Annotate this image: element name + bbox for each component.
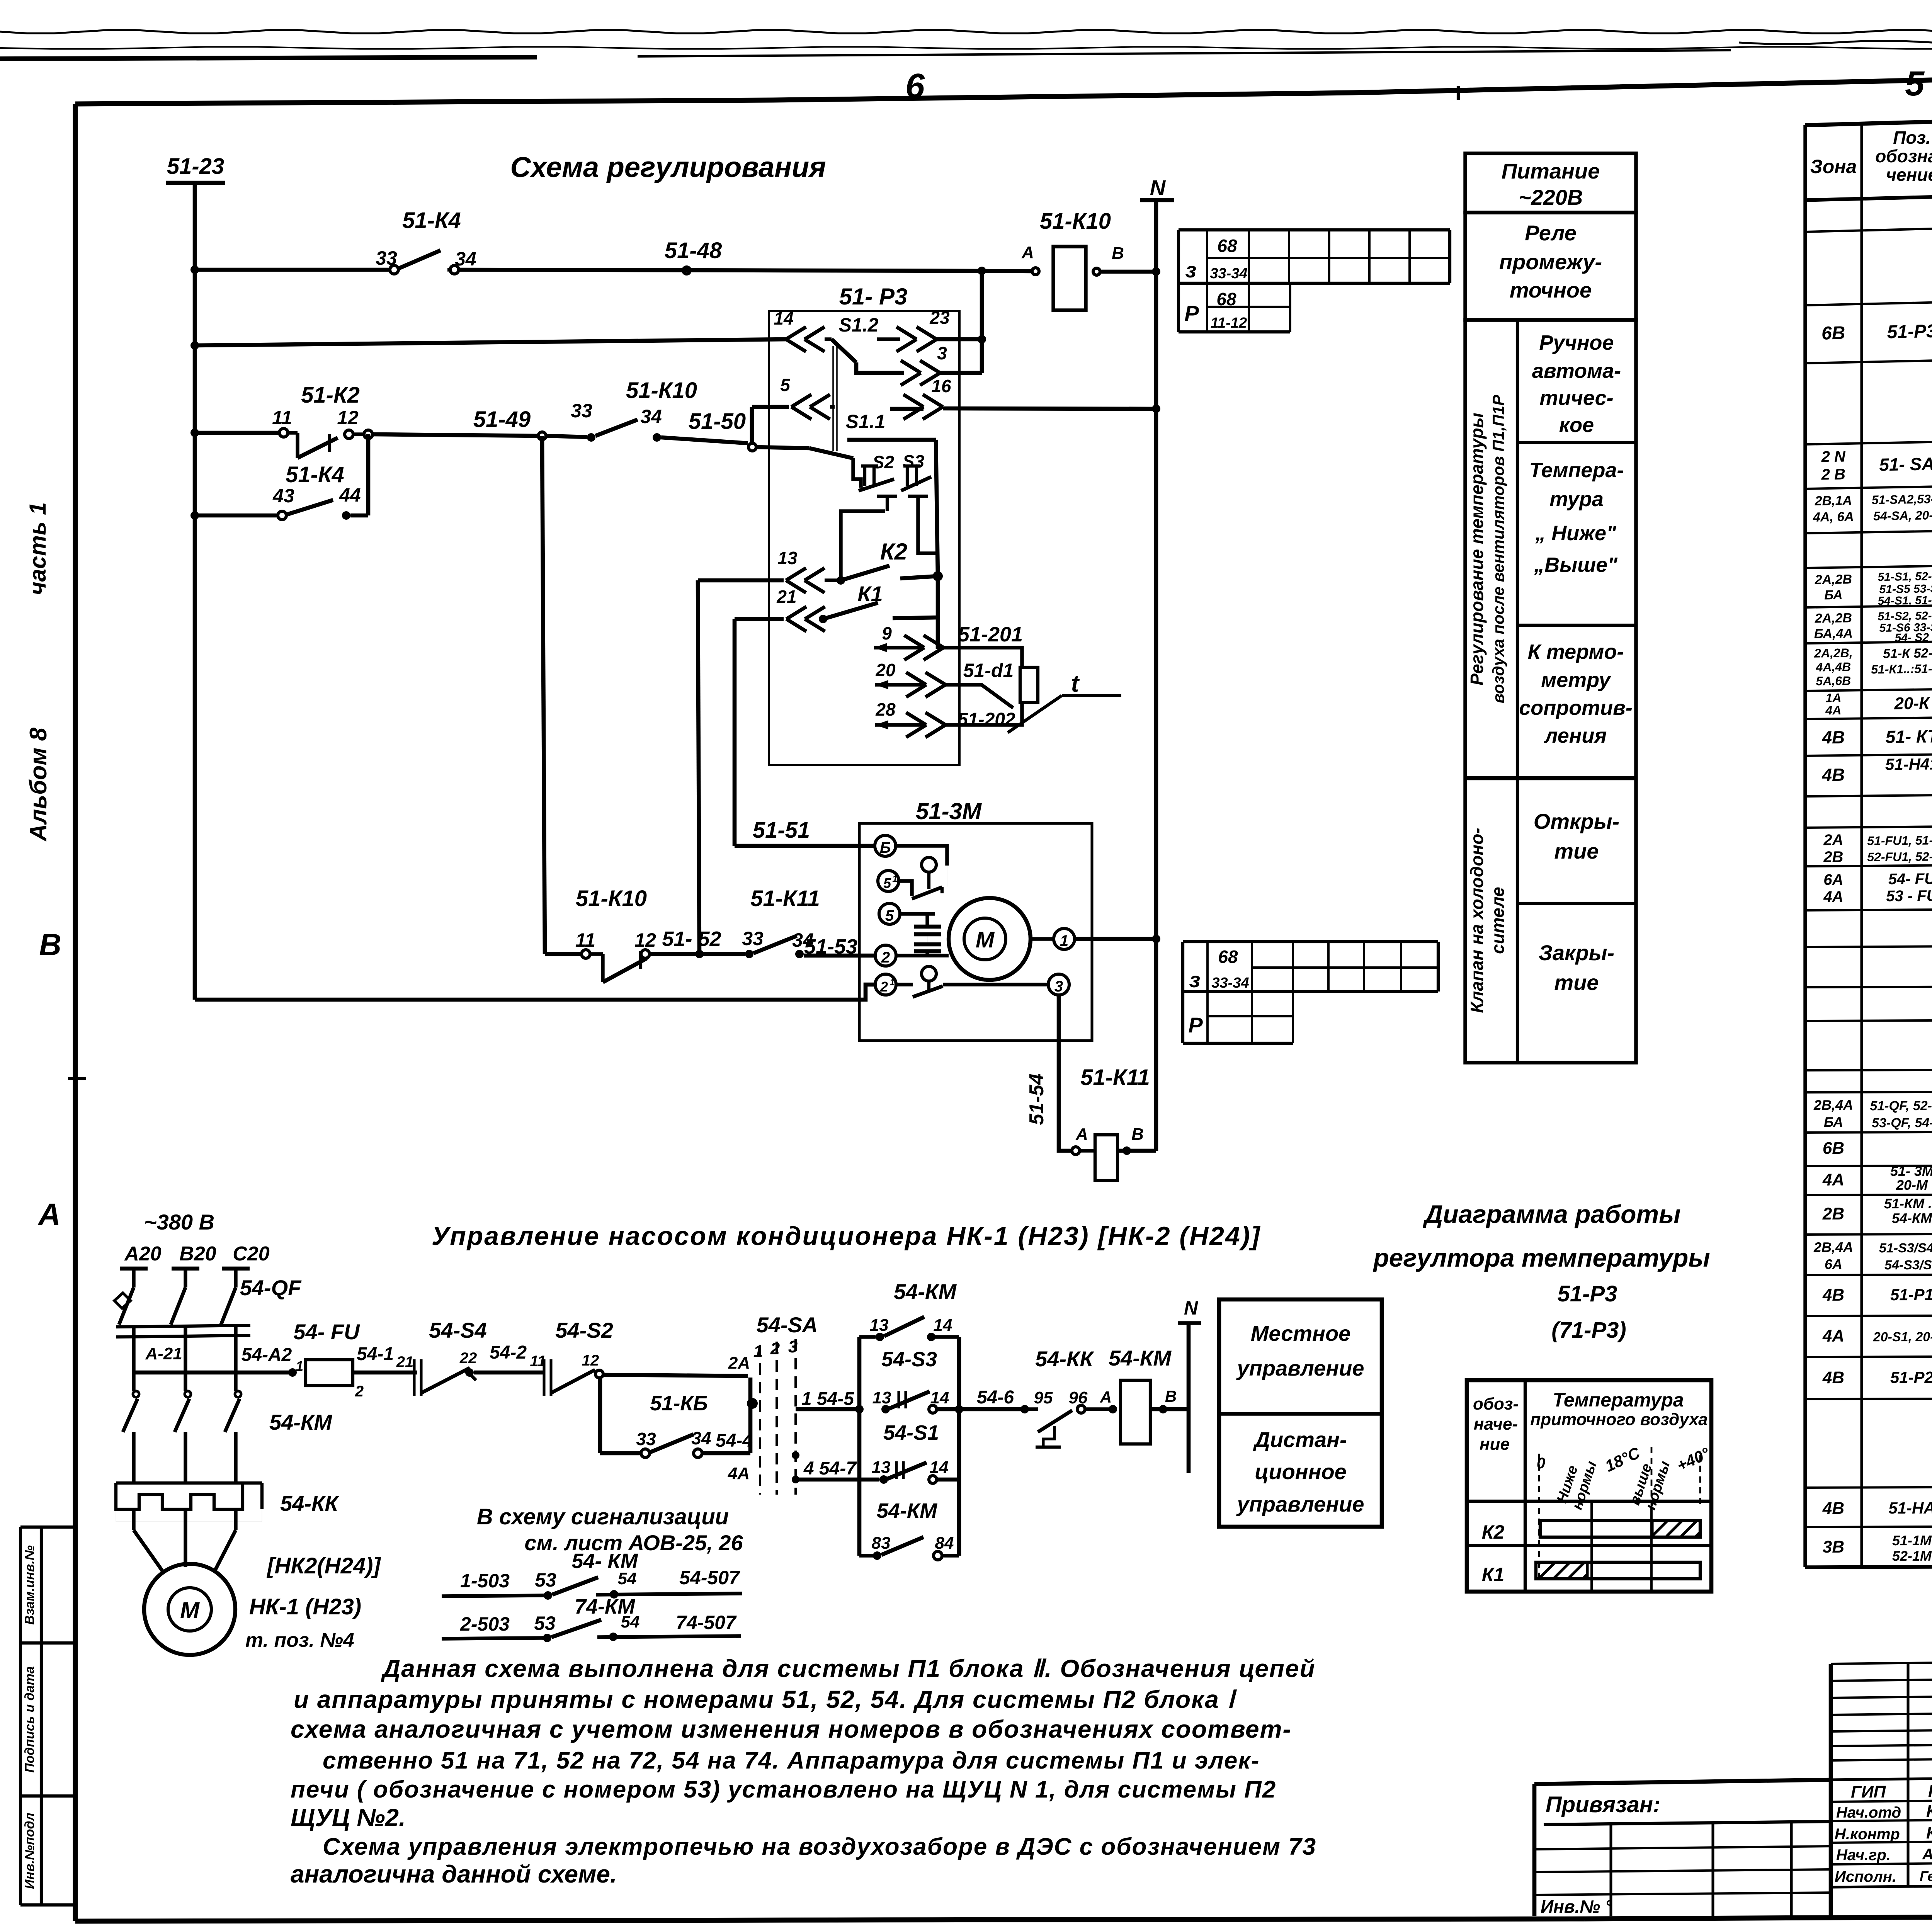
limit switch 2 knob [922,966,936,981]
junction dot S3 branch [855,1405,864,1413]
svg-text:51-Р3: 51-Р3 [1887,321,1932,343]
P3 arrow 21 chevrons [786,607,806,619]
svg-text:53: 53 [534,1612,556,1634]
wire limit switch 2 to terminal 3 [943,983,1048,986]
privyazan horizontals [1534,1846,1831,1849]
diagram dashed axis right2 [1699,1455,1701,1506]
svg-text:Н.контр: Н.контр [1835,1826,1900,1843]
signature table small rows [1831,1661,1932,1664]
svg-text:ЩУЦ №2.: ЩУЦ №2. [291,1804,406,1832]
mode box Местное/Дистанционное [1219,1299,1382,1527]
svg-text:4В: 4В [1821,727,1845,748]
wire row1 left segment [195,268,391,272]
svg-text:44: 44 [339,484,361,506]
thermal contact 54-КК [1029,1407,1038,1411]
svg-text:тичес-: тичес- [1539,386,1613,410]
svg-text:54-КМ: 54-КМ [1109,1346,1172,1370]
svg-text:2: 2 [770,1339,780,1358]
svg-text:ционное: ционное [1255,1459,1347,1484]
svg-text:13: 13 [777,548,798,568]
svg-text:ственно 51 на 71, 52 на: ственно 51 на 71, 52 на 72, 54 на 74. Ап… [323,1747,1260,1774]
terminal circle 2 [875,945,896,966]
wire row1 mid segment 51-48 [459,270,978,271]
svg-text:2 В: 2 В [1821,466,1845,483]
P3 arrow 20 chevrons [906,672,926,685]
wire 21 row [735,617,784,621]
svg-text:12: 12 [582,1352,599,1369]
svg-text:В: В [1165,1387,1177,1405]
svg-text:Температура: Температура [1553,1389,1684,1411]
svg-text:М: М [180,1597,200,1623]
svg-text:51-Р1: 51-Р1 [1890,1286,1932,1304]
svg-text:4А: 4А [1823,888,1843,905]
svg-text:печи ( обозначение с номером: печи ( обозначение с номером 53) установ… [291,1776,1276,1803]
legend divider Температура/Ктермометру [1517,624,1636,627]
svg-text:метру: метру [1541,668,1612,692]
svg-text:1: 1 [296,1358,303,1374]
signal row 1 dot 54 [610,1590,618,1599]
svg-text:Инв.№ °: Инв.№ ° [1541,1896,1612,1917]
svg-text:Схема регулирования: Схема регулирования [510,151,826,183]
contact 33-34 54-4 [641,1449,650,1458]
svg-text:54-S2: 54-S2 [555,1318,613,1342]
wire 5 to capacitor [900,912,935,915]
svg-text:51- КТ: 51- КТ [1885,726,1932,747]
loop 51-КБ right rise [748,1378,753,1453]
S2 blade [859,479,894,491]
terminal circle 3 [1048,974,1069,995]
capacitor upper [914,925,941,929]
terminal circle 14 main [929,1405,937,1413]
pushbutton 54-S4 symbol [413,1359,415,1396]
vertical wire 23-3 to row1 [980,271,984,373]
wire 20 diagonal to sensor [946,685,1013,708]
limit switch 1 blade [912,887,942,899]
svg-text:2В: 2В [1822,1204,1844,1223]
wire bottom from 51-23 to 51-3M terminal 2-1 [195,985,875,1000]
svg-text:регултора температуры: регултора температуры [1372,1243,1710,1272]
button S2 symbol [863,466,866,486]
wire 5-1 to limit switch 1 [899,881,912,896]
vertical link 51-50 to arrow 5 [750,407,754,444]
left rail down to 83-84 [857,1409,862,1480]
branch down right side [957,1337,961,1409]
contact 51-K10 11-12 bottom [545,952,582,956]
svg-text:4А: 4А [728,1464,750,1483]
svg-text:51-201: 51-201 [958,623,1023,646]
svg-text:наче-: наче- [1474,1415,1518,1434]
svg-text:Козлов: Козлов [1926,1802,1932,1821]
svg-text:54-КМ: 54-КМ [877,1499,937,1522]
torn paper edge top thick left segment [0,57,537,59]
svg-text:В: В [39,927,61,962]
wire stub to arrow 5 [752,405,789,409]
arrow 28 wire [875,720,888,730]
relay coil 51-K11 [1095,1135,1117,1180]
svg-text:43: 43 [272,485,294,507]
diagram col divider [1524,1380,1527,1592]
terminal circle lower 14 [929,1476,937,1483]
terminal circle 96 [1077,1405,1085,1413]
svg-text:~380 В: ~380 В [144,1210,214,1234]
svg-text:54-2: 54-2 [490,1342,527,1363]
diagram tick verticals [1590,1501,1593,1590]
svg-text:51-К2: 51-К2 [301,383,360,408]
relay coil 51-K10 [1053,247,1086,310]
stepped wire S2 to K2 [841,511,885,580]
svg-text:5: 5 [1905,65,1925,103]
loop 51-КБ bottom to contact 33 [600,1451,641,1456]
svg-text:54-S1: 54-S1 [883,1421,939,1444]
legend inner divider vertical [1516,320,1519,1063]
svg-text:2В,4А: 2В,4А [1813,1239,1853,1255]
component table header bottom [1805,178,1932,200]
svg-text:кое: кое [1559,413,1594,437]
svg-text:S1.1: S1.1 [846,411,886,432]
svg-text:(71-Р3): (71-Р3) [1551,1318,1626,1343]
svg-text:Р: Р [1188,1013,1203,1037]
P3 arrow 23 chevrons [877,337,900,341]
svg-text:2 N: 2 N [1821,448,1846,465]
terminal circle 2-1 [875,974,896,995]
junction dot 22 [465,1368,474,1377]
switch S1.1 blade [755,447,810,448]
svg-text:13: 13 [870,1316,889,1335]
svg-text:4В: 4В [1822,1286,1844,1304]
svg-text:54: 54 [618,1569,637,1588]
torn paper edge top 2 [0,47,1932,49]
svg-text:51-51: 51-51 [753,818,810,843]
svg-text:34: 34 [640,406,662,427]
P3 arrow 3 chevrons [901,361,921,373]
legend box Реле промежуточное [1465,213,1636,320]
junction dot 16 N bus [1152,405,1160,413]
svg-text:22: 22 [459,1350,477,1367]
motor НК-1 outer circle [144,1564,235,1655]
N bus pump bar [1178,1321,1201,1325]
svg-text:и аппаратуры приняты с ном: и аппаратуры приняты с номерами 51, 52, … [294,1685,1237,1713]
wire 3 to junction [940,371,982,375]
svg-text:51-54: 51-54 [1026,1073,1048,1125]
wire S4 to S2 [474,1371,543,1375]
svg-text:54-1: 54-1 [357,1344,394,1364]
legend box Питание 220В [1465,153,1636,213]
svg-text:51-К 52-К: 51-К 52-К [1883,646,1932,661]
svg-text:51-1М: 51-1М [1892,1532,1932,1548]
node circle 51-49 junction [538,432,546,440]
diagram bar K1 divider [1586,1562,1588,1579]
small table 2 grid [1183,940,1438,943]
thermal relay 54-КК box [116,1483,243,1509]
wire B to limit switch 1 [896,846,947,866]
svg-text:тие: тие [1554,970,1599,995]
svg-text:А: А [1100,1388,1112,1406]
right rail down from K1 [936,576,940,649]
svg-text:К2: К2 [1482,1521,1505,1543]
junction dot K2 right rail [933,571,943,581]
svg-text:68: 68 [1218,947,1238,967]
terminal circle 5-1 [878,871,899,891]
contact 51-K2 11-12 [279,429,288,437]
svg-text:54- S2: 54- S2 [1895,631,1929,644]
svg-text:1А: 1А [1825,691,1841,705]
svg-text:54-КМ: 54-КМ [1892,1210,1932,1226]
stepped link S1.1 to S2 [853,464,861,488]
S3 lower post [908,495,928,498]
signal row 2 wire right [597,1636,741,1637]
svg-text:51-QF, 52- QF: 51-QF, 52- QF [1870,1099,1932,1114]
loop 51-КБ top wire [603,1375,748,1376]
svg-text:чение: чение [1886,165,1932,185]
svg-text:51-3М: 51-3М [916,798,982,824]
svg-text:51-48: 51-48 [665,238,722,263]
signature table row lines [1831,1777,1932,1780]
svg-text:33: 33 [742,928,764,949]
loop 51-КБ left drop [598,1378,602,1453]
svg-text:обозна -: обозна - [1875,146,1932,166]
svg-text:М: М [976,927,995,952]
S3 blade [901,477,931,491]
terminal circle 12 54-S2 [595,1370,603,1378]
svg-text:96: 96 [1069,1388,1088,1407]
stepped wire S3 to right rail [918,496,936,553]
zone tick left [68,1077,86,1080]
svg-text:54- FU: 54- FU [1888,871,1932,888]
selector 54-SA dashed lines [759,1345,761,1495]
wire 2-1 to limit switch 2 [896,983,913,986]
small table 1 grid [1179,228,1450,231]
svg-text:51-НА: 51-НА [1888,1499,1932,1517]
svg-text:2В,1А: 2В,1А [1814,493,1852,509]
svg-text:обоз-: обоз- [1473,1395,1519,1413]
svg-text:приточного воздуха: приточного воздуха [1530,1410,1708,1429]
phase terminal bars [120,1267,148,1271]
svg-text:ние: ние [1480,1435,1510,1454]
contact K1 [819,615,827,623]
svg-text:управление: управление [1236,1492,1364,1516]
svg-text:54-S3/S4: 54-S3/S4 [1884,1258,1932,1272]
svg-text:14: 14 [930,1458,949,1477]
svg-text:2А,2В: 2А,2В [1814,611,1852,626]
svg-text:Реле: Реле [1525,221,1577,245]
torn paper edge top 1 [0,30,1932,34]
svg-text:управление: управление [1236,1356,1364,1380]
svg-text:К1: К1 [1482,1564,1505,1585]
svg-text:4А,4В: 4А,4В [1815,660,1851,674]
svg-text:54-S3: 54-S3 [881,1348,937,1371]
signature table verticals [1829,1664,1833,1916]
svg-text:20-S1, 20-S2: 20-S1, 20-S2 [1873,1330,1932,1345]
signal row 2 wire left [442,1638,543,1639]
svg-text:т. поз. №4: т. поз. №4 [245,1629,354,1651]
svg-text:16: 16 [931,376,951,396]
svg-text:51- 52: 51- 52 [662,927,721,951]
signal row 2 dot 54 [609,1633,617,1641]
wire coil to В [1150,1407,1189,1412]
svg-text:6А: 6А [1823,871,1843,888]
pushbutton 54-S2 symbol [543,1359,545,1396]
frame border [75,54,1932,104]
node circle 51-48 [683,267,690,274]
signal row 1 wire right [596,1594,742,1595]
legend divider Ручное/Температура [1517,441,1636,444]
wire дистанционное row [796,1478,879,1482]
wire row3 51-49 segment [372,434,539,436]
svg-text:12: 12 [337,407,359,429]
svg-text:К2: К2 [880,539,907,565]
svg-text:51-К11: 51-К11 [1080,1065,1150,1090]
N bus vertical wire [1154,200,1158,1151]
svg-text:54-SA: 54-SA [757,1313,818,1337]
svg-text:1: 1 [892,874,897,884]
svg-text:Взам.инв.№: Взам.инв.№ [22,1545,37,1625]
svg-text:А-21: А-21 [145,1344,182,1363]
junction dot N bus row 1-motor [1152,935,1160,943]
svg-text:тие: тие [1554,839,1599,863]
svg-text:В20: В20 [179,1243,216,1265]
wire 23 to junction [937,337,982,342]
left margin column boxes [19,1527,22,1905]
wire 51-53 to terminal 2 [804,954,875,958]
svg-text:2А,2В,: 2А,2В, [1814,646,1853,660]
wire limit switch 1 to rail [947,866,947,887]
svg-text:53 - FU: 53 - FU [1886,888,1932,905]
svg-text:51-Н41: 51-Н41 [1885,755,1932,773]
svg-text:Б: Б [880,839,891,856]
wire motor to terminal 1 [1031,937,1054,940]
svg-text:4В: 4В [1822,1499,1844,1518]
svg-text:Нач.гр.: Нач.гр. [1836,1847,1891,1864]
P3 arrow 16 wire [890,407,923,411]
svg-text:ГИП: ГИП [1851,1782,1886,1801]
svg-text:сопротив-: сопротив- [1519,696,1633,719]
svg-text:34: 34 [455,248,476,270]
svg-text:4 54-7: 4 54-7 [803,1458,857,1479]
svg-text:К термо-: К термо- [1528,640,1624,663]
svg-text:2В: 2В [1823,849,1843,866]
svg-text:1: 1 [889,977,895,988]
wire row2 to 51-P3 [195,339,786,345]
svg-text:21: 21 [396,1354,414,1371]
svg-text:33: 33 [376,247,397,269]
svg-text:11: 11 [575,929,595,951]
privyazan verticals [1609,1824,1612,1916]
breaker common bars [116,1325,250,1327]
svg-text:51-К11: 51-К11 [750,886,820,911]
component table bottom [1805,1565,1932,1567]
svg-text:воздуха после вентиляторов П1,: воздуха после вентиляторов П1,П1Р [1489,395,1507,703]
terminal B circle 51-K10 [1093,268,1100,275]
svg-text:К1: К1 [857,582,883,606]
svg-text:51-К4: 51-К4 [402,208,461,233]
regulator box 51-P3 [769,311,959,765]
svg-text:52-FU1, 52-FU2: 52-FU1, 52-FU2 [1867,849,1932,864]
svg-text:54-КК: 54-КК [1035,1347,1094,1371]
vertical wire 51-49 down to 51-K10 bottom contact [542,436,545,954]
wire 96 to A [1085,1407,1109,1411]
svg-text:13: 13 [872,1458,891,1477]
terminal circle 5 [879,903,900,924]
svg-text:6: 6 [905,67,925,105]
svg-text:20-К: 20-К [1894,694,1930,713]
svg-text:тура: тура [1549,488,1604,511]
vertical wire 44 to row3 [366,434,371,515]
svg-text:Схема управления электропечь: Схема управления электропечью на воздухо… [323,1833,1316,1860]
junction dot В КМ [1159,1405,1167,1413]
svg-text:28: 28 [875,699,896,719]
svg-text:Закры-: Закры- [1539,940,1614,965]
svg-text:Антохина: Антохина [1922,1846,1932,1863]
svg-text:51-К10: 51-К10 [576,886,647,911]
svg-text:БА: БА [1824,588,1843,603]
svg-text:Темпера-: Темпера- [1529,459,1624,482]
svg-text:сителе: сителе [1488,887,1508,954]
svg-text:74-507: 74-507 [676,1612,737,1633]
svg-text:НК-1 (Н23): НК-1 (Н23) [249,1594,361,1619]
svg-text:54-SA, 20-SA: 54-SA, 20-SA [1873,508,1932,523]
svg-text:Ручное: Ручное [1539,331,1614,354]
junction dot 51-23 row2 [190,341,199,350]
svg-text:Клапан на холодоно-: Клапан на холодоно- [1467,828,1487,1013]
svg-text:„Выше": „Выше" [1534,553,1618,577]
svg-text:51-К10: 51-К10 [1040,209,1111,234]
svg-text:11-12: 11-12 [1211,315,1247,331]
terminal A circle 51-K10 [1032,268,1039,275]
signal row 1 wire left [442,1595,544,1596]
svg-text:54-А2: 54-А2 [241,1345,292,1365]
svg-text:12: 12 [634,929,656,951]
svg-text:2А,2В: 2А,2В [1814,572,1852,587]
wire 2 to motor [896,954,949,957]
svg-text:68: 68 [1217,236,1237,256]
wire coil B to N bus [1117,1149,1156,1153]
wire row1 coil B to N bus [1100,270,1156,274]
svg-text:2В,4А: 2В,4А [1813,1097,1853,1113]
junction dot 51-52 [695,950,704,958]
svg-text:БА,4А: БА,4А [1814,626,1853,641]
diagram bar K2 outline [1540,1520,1700,1537]
svg-text:33: 33 [571,400,592,422]
svg-text:3В: 3В [1823,1537,1844,1556]
privyazan divider under text [1544,1821,1831,1825]
diagram header bottom line [1467,1500,1711,1503]
mode box divider [1219,1412,1382,1415]
svg-text:53: 53 [535,1569,556,1591]
svg-text:2-503: 2-503 [460,1613,510,1635]
svg-text:Привязан:: Привязан: [1546,1792,1660,1817]
svg-text:Нач.отд: Нач.отд [1836,1804,1901,1821]
branch up to 54-КМ 13-14 [857,1337,862,1409]
svg-text:51-49: 51-49 [473,407,531,432]
inner mech right rail [936,440,938,576]
junction dot row1 to 51-P3 drop [978,267,986,275]
svg-text:51-Р2: 51-Р2 [1890,1368,1932,1386]
svg-text:51-К1..:51-К11: 51-К1..:51-К11 [1871,662,1932,677]
svg-text:95: 95 [1034,1388,1053,1407]
junction dot 54-А2 [288,1368,297,1377]
contact 51-K4 33-34 [390,265,398,274]
junction dot 95 [1020,1405,1029,1413]
svg-text:4А: 4А [1822,1327,1844,1345]
svg-text:20-М: 20-М [1896,1177,1928,1193]
P3 arrow 9 chevrons [904,635,924,648]
svg-text:51-d1: 51-d1 [963,660,1014,681]
wire row1 to coil A [982,271,1032,271]
svg-text:51-Р3: 51-Р3 [1558,1281,1617,1306]
svg-text:51-К10: 51-К10 [626,378,697,403]
svg-text:54-КМ: 54-КМ [269,1410,332,1434]
svg-text:Р: Р [1184,301,1199,325]
